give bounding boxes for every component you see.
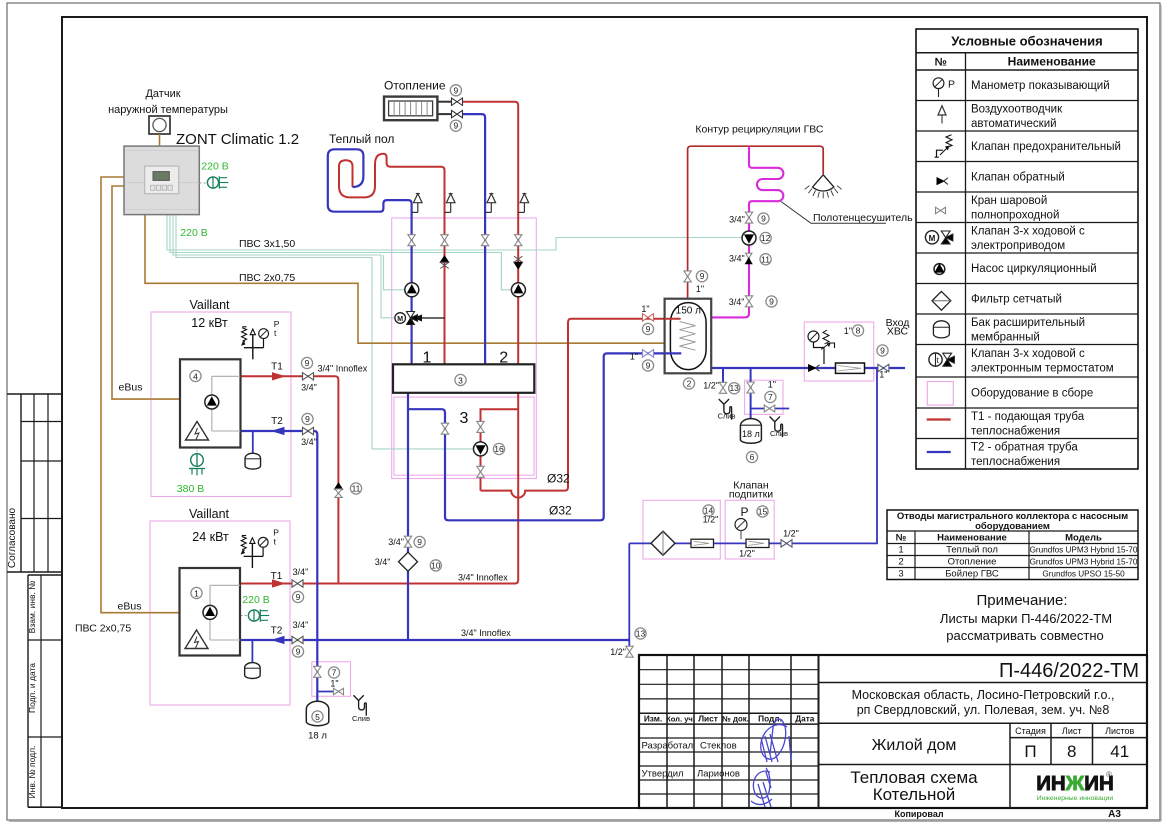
svg-text:Наименование: Наименование [937, 533, 1007, 544]
svg-text:А3: А3 [1108, 809, 1121, 820]
svg-text:рп Свердловский, ул. Полевая,: рп Свердловский, ул. Полевая, зем. уч. №… [857, 703, 1110, 717]
svg-text:9: 9 [880, 346, 885, 356]
svg-text:ZONT Climatic 1.2: ZONT Climatic 1.2 [176, 131, 299, 148]
svg-text:18 л: 18 л [742, 429, 760, 439]
svg-text:Ø32: Ø32 [549, 504, 572, 518]
svg-text:3: 3 [460, 410, 469, 427]
svg-text:7: 7 [332, 668, 337, 678]
svg-text:2: 2 [687, 379, 692, 389]
svg-text:1: 1 [898, 545, 903, 556]
svg-text:15: 15 [758, 507, 768, 517]
svg-text:мембранный: мембранный [971, 331, 1040, 343]
svg-text:Изм.: Изм. [644, 713, 662, 723]
svg-text:9: 9 [296, 592, 301, 602]
svg-text:1/2": 1/2" [703, 381, 719, 391]
svg-text:3/4" Innoflex: 3/4" Innoflex [461, 628, 511, 638]
svg-text:10: 10 [431, 560, 441, 570]
svg-text:5: 5 [315, 712, 320, 722]
svg-text:Теплый пол: Теплый пол [329, 132, 394, 146]
svg-text:41: 41 [1110, 742, 1129, 761]
svg-text:12 кВт: 12 кВт [191, 316, 228, 330]
svg-text:Подп. и дата: Подп. и дата [27, 663, 37, 713]
svg-text:1": 1" [768, 380, 776, 390]
svg-text:Датчик: Датчик [145, 88, 180, 100]
svg-text:18 л: 18 л [308, 731, 327, 742]
svg-text:М: М [929, 234, 936, 243]
svg-text:eBus: eBus [119, 382, 143, 394]
svg-text:1": 1" [330, 679, 338, 689]
svg-text:3/4" Innoflex: 3/4" Innoflex [458, 573, 508, 583]
svg-text:Т1: Т1 [271, 362, 283, 373]
svg-text:1": 1" [641, 304, 649, 314]
svg-text:13: 13 [636, 629, 646, 639]
svg-text:Разработал: Разработал [642, 741, 694, 752]
svg-text:P: P [740, 505, 748, 519]
svg-text:Grundfos UPM3 Hybrid 15-70: Grundfos UPM3 Hybrid 15-70 [1030, 558, 1138, 567]
svg-text:9: 9 [305, 414, 310, 424]
svg-text:электронным термостатом: электронным термостатом [971, 363, 1114, 375]
svg-text:ИНЖИН: ИНЖИН [1036, 772, 1114, 795]
svg-text:Модель: Модель [1065, 533, 1102, 544]
svg-text:Ларионов: Ларионов [697, 769, 740, 780]
svg-text:Наименование: Наименование [1008, 54, 1096, 68]
svg-text:Бак расширительный: Бак расширительный [971, 317, 1085, 329]
svg-text:Клапан 3-х ходовой с: Клапан 3-х ходовой с [971, 226, 1085, 238]
svg-text:автоматический: автоматический [971, 118, 1057, 130]
svg-text:9: 9 [769, 297, 774, 307]
svg-text:Слив: Слив [718, 412, 736, 421]
svg-text:П-446/2022-ТМ: П-446/2022-ТМ [999, 660, 1139, 682]
svg-text:13: 13 [729, 383, 739, 393]
svg-text:Т1: Т1 [271, 571, 283, 582]
svg-text:теплоснабжения: теплоснабжения [971, 425, 1060, 437]
svg-text:Т2: Т2 [271, 626, 283, 637]
svg-text:7: 7 [768, 392, 773, 402]
svg-text:Котельной: Котельной [873, 785, 956, 804]
svg-text:1": 1" [844, 326, 852, 336]
svg-text:1": 1" [879, 369, 887, 379]
svg-text:теплоснабжения: теплоснабжения [971, 456, 1060, 468]
svg-text:Насос циркуляционный: Насос циркуляционный [971, 263, 1097, 275]
svg-text:220 В: 220 В [180, 227, 207, 239]
svg-text:2: 2 [898, 557, 903, 568]
svg-text:9: 9 [454, 85, 459, 95]
svg-text:Т1 - подающая труба: Т1 - подающая труба [971, 411, 1085, 423]
svg-text:9: 9 [296, 647, 301, 657]
svg-text:9: 9 [454, 121, 459, 131]
svg-text:3/4": 3/4" [729, 253, 745, 263]
svg-text:Лист: Лист [1062, 726, 1082, 736]
svg-text:подпитки: подпитки [729, 489, 773, 501]
svg-text:Vaillant: Vaillant [189, 298, 230, 312]
svg-text:Жилой дом: Жилой дом [872, 737, 957, 754]
svg-text:Лист: Лист [698, 713, 718, 723]
svg-text:ПВС 2х0,75: ПВС 2х0,75 [239, 272, 295, 284]
svg-text:Grundfos UPM3 Hybrid 15-70: Grundfos UPM3 Hybrid 15-70 [1030, 546, 1138, 555]
svg-text:3/4": 3/4" [729, 215, 745, 225]
svg-text:Vaillant: Vaillant [189, 507, 230, 521]
svg-text:16: 16 [494, 444, 504, 454]
svg-text:Контур рециркуляции ГВС: Контур рециркуляции ГВС [695, 123, 824, 135]
svg-text:полнопроходной: полнопроходной [971, 209, 1059, 221]
svg-text:Бойлер ГВС: Бойлер ГВС [945, 569, 999, 580]
svg-text:Клапан 3-х ходовой с: Клапан 3-х ходовой с [971, 348, 1085, 360]
svg-text:12: 12 [761, 233, 771, 243]
svg-text:Ø32: Ø32 [547, 472, 570, 486]
svg-text:11: 11 [761, 254, 770, 264]
svg-text:Дата: Дата [795, 713, 815, 723]
svg-text:Т2 - обратная труба: Т2 - обратная труба [971, 441, 1078, 453]
svg-text:11: 11 [352, 484, 361, 494]
svg-text:ПВС 3х1,50: ПВС 3х1,50 [239, 238, 295, 250]
svg-text:1: 1 [423, 350, 432, 367]
svg-text:Отопление: Отопление [384, 79, 446, 93]
svg-text:М: М [397, 316, 403, 323]
svg-text:Клапан предохранительный: Клапан предохранительный [971, 141, 1121, 153]
svg-text:Слив: Слив [770, 429, 788, 438]
svg-text:1": 1" [630, 352, 638, 362]
svg-text:Фильтр сетчатый: Фильтр сетчатый [971, 294, 1062, 306]
svg-text:Стадия: Стадия [1015, 726, 1046, 736]
svg-text:24 кВт: 24 кВт [192, 530, 229, 544]
svg-text:Согласовано: Согласовано [7, 508, 18, 569]
svg-text:3/4": 3/4" [301, 383, 317, 393]
svg-text:электроприводом: электроприводом [971, 240, 1065, 252]
svg-text:®: ® [1106, 770, 1112, 779]
svg-text:8: 8 [1067, 742, 1076, 761]
svg-text:наружной температуры: наружной температуры [108, 104, 228, 116]
svg-text:оборудованием: оборудованием [975, 521, 1050, 532]
svg-text:Полотенцесушитель: Полотенцесушитель [813, 212, 913, 224]
svg-text:Условные обозначения: Условные обозначения [951, 34, 1102, 49]
svg-text:Отопление: Отопление [948, 557, 997, 568]
svg-text:Подл.: Подл. [758, 713, 782, 723]
svg-text:№: № [896, 533, 907, 544]
svg-text:3/4" Innoflex: 3/4" Innoflex [318, 364, 368, 374]
svg-text:9: 9 [417, 537, 422, 547]
svg-text:Манометр показывающий: Манометр показывающий [971, 80, 1110, 92]
svg-text:150 л: 150 л [676, 306, 701, 317]
svg-text:Листы марки П-446/2022-ТМ: Листы марки П-446/2022-ТМ [940, 611, 1112, 626]
svg-text:220 В: 220 В [242, 594, 269, 606]
svg-text:9: 9 [646, 361, 651, 371]
svg-text:Инв. № подл.: Инв. № подл. [27, 746, 37, 799]
svg-text:Grundfos UPSO 15-50: Grundfos UPSO 15-50 [1042, 570, 1125, 579]
svg-text:3: 3 [898, 569, 903, 580]
svg-text:3/4": 3/4" [388, 537, 404, 547]
svg-text:1": 1" [696, 284, 704, 294]
svg-text:Теплый пол: Теплый пол [946, 545, 998, 556]
svg-text:3/4": 3/4" [293, 567, 309, 577]
svg-text:eBus: eBus [118, 601, 142, 613]
svg-text:3/4": 3/4" [375, 557, 391, 567]
svg-text:3/4": 3/4" [301, 437, 317, 447]
svg-text:Копировал: Копировал [894, 809, 943, 819]
svg-text:Примечание:: Примечание: [977, 592, 1068, 609]
svg-text:Кран шаровой: Кран шаровой [971, 195, 1047, 207]
svg-text:Инженерные инновации: Инженерные инновации [1037, 795, 1114, 802]
svg-text:3: 3 [458, 376, 463, 386]
svg-text:Р: Р [948, 79, 955, 91]
svg-text:№ док.: № док. [722, 714, 749, 723]
svg-text:Воздухоотводчик: Воздухоотводчик [971, 103, 1063, 115]
svg-text:Слив: Слив [352, 714, 370, 723]
svg-text:Кол. уч.: Кол. уч. [666, 714, 695, 723]
svg-text:9: 9 [700, 271, 705, 281]
svg-text:9: 9 [646, 324, 651, 334]
svg-text:ПВС 2х0,75: ПВС 2х0,75 [75, 623, 131, 635]
svg-text:Утвердил: Утвердил [642, 769, 684, 780]
svg-text:3/4": 3/4" [729, 297, 745, 307]
svg-text:3/4": 3/4" [293, 620, 309, 630]
svg-text:380 В: 380 В [177, 483, 204, 495]
svg-text:1/2": 1/2" [703, 515, 719, 525]
svg-text:6: 6 [750, 452, 755, 462]
svg-text:9: 9 [305, 358, 310, 368]
svg-text:Листов: Листов [1105, 726, 1134, 736]
svg-text:Взам. инв. №: Взам. инв. № [27, 581, 37, 634]
svg-text:220 В: 220 В [201, 161, 228, 173]
svg-text:1/2": 1/2" [739, 549, 755, 559]
svg-text:№: № [935, 56, 947, 68]
svg-text:8: 8 [856, 326, 861, 336]
svg-text:Московская область, Лосино-Пет: Московская область, Лосино-Петровский г.… [852, 688, 1115, 702]
svg-text:П: П [1024, 742, 1036, 761]
svg-text:9: 9 [761, 214, 766, 224]
svg-text:4: 4 [193, 372, 198, 382]
svg-text:2: 2 [499, 350, 508, 367]
svg-text:рассматривать совместно: рассматривать совместно [946, 628, 1104, 643]
svg-text:Стеклов: Стеклов [700, 741, 737, 752]
svg-text:Оборудование в сборе: Оборудование в сборе [971, 388, 1093, 400]
svg-text:Клапан обратный: Клапан обратный [971, 172, 1065, 184]
svg-text:Т2: Т2 [271, 416, 283, 427]
svg-text:ХВС: ХВС [887, 326, 909, 338]
svg-text:1/2": 1/2" [783, 529, 799, 539]
svg-text:1: 1 [194, 589, 199, 599]
svg-text:1/2": 1/2" [610, 647, 626, 657]
